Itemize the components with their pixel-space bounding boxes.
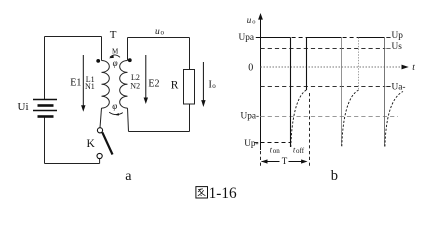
svg-text:T: T: [110, 29, 117, 41]
polarity dot primary: [96, 59, 100, 63]
wire: switch to bottom wire: [99, 159, 101, 164]
Up level dashed gap 1: [292, 37, 307, 39]
svg-text:o: o: [252, 19, 255, 26]
pulse top solid 1: [261, 37, 291, 39]
resistor R: [184, 70, 195, 105]
svg-text:u: u: [155, 27, 160, 37]
pulse rise 3 grey: [358, 38, 360, 90]
svg-text:o: o: [161, 29, 165, 37]
Up tick right: [386, 37, 390, 39]
pulse drop 3 grey: [384, 38, 386, 147]
battery Ui plate short thick 2: [38, 115, 54, 118]
wire: R top: [189, 38, 191, 71]
svg-text:Up-: Up-: [244, 139, 258, 149]
polarity dot secondary: [128, 58, 132, 62]
arrow E2: [145, 55, 147, 98]
svg-text:M: M: [112, 48, 119, 56]
period T arrow: [262, 161, 307, 163]
Up- tick left: [254, 142, 258, 144]
wire: top-left loop top: [45, 36, 102, 38]
wire: left branch upper: [44, 37, 46, 100]
Ua- level dashed: [261, 86, 386, 88]
recovery curve 2: [342, 90, 359, 146]
wire: secondary loop top: [128, 37, 190, 39]
svg-text:K: K: [87, 138, 96, 150]
transformer T primary winding L1/N1: [102, 61, 110, 109]
svg-text:φ: φ: [113, 58, 118, 68]
wire: secondary bottom riser: [128, 108, 129, 131]
svg-text:Up: Up: [392, 31, 404, 41]
wire: bottom-left loop: [45, 163, 100, 165]
battery Ui plate short thick 1: [38, 104, 54, 107]
pulse drop 1: [290, 38, 292, 148]
svg-text:Upa-: Upa-: [241, 111, 260, 121]
Up- level dashed: [261, 142, 291, 144]
period boundary dashed: [309, 93, 311, 167]
Ua- tick right: [386, 86, 390, 88]
battery Ui plate long 2: [33, 110, 57, 112]
Upa- level dashed grey: [261, 116, 399, 118]
recovery curve 1: [291, 90, 307, 147]
switch K top contact: [97, 128, 102, 133]
tick Upa: [256, 37, 261, 39]
wire: secondary top riser: [127, 38, 129, 61]
svg-text:Us: Us: [392, 42, 403, 52]
svg-text:o: o: [212, 82, 216, 90]
flux arrow bottom arc: [109, 112, 123, 114]
svg-text:u: u: [247, 15, 252, 25]
caption hanzi tu glyph: [196, 187, 208, 198]
Us level dashed: [261, 48, 386, 50]
recovery curve 3: [385, 92, 403, 147]
battery Ui plate long 1: [33, 99, 57, 101]
Us tick right: [386, 48, 390, 50]
switch K bottom contact: [97, 153, 102, 158]
svg-text:N1: N1: [85, 82, 95, 91]
svg-text:R: R: [171, 80, 179, 92]
transformer T secondary winding L2/N2: [120, 61, 128, 109]
svg-text:t: t: [412, 63, 415, 73]
svg-text:on: on: [273, 147, 281, 155]
wire: primary bottom to switch: [100, 108, 102, 128]
svg-text:E1: E1: [70, 78, 81, 89]
svg-text:0: 0: [248, 62, 253, 73]
svg-text:Ui: Ui: [18, 101, 29, 113]
pulse rise 2: [306, 38, 308, 91]
switch K blade: [102, 132, 112, 154]
Up level dashed gap 2: [343, 37, 359, 39]
svg-text:a: a: [125, 169, 132, 184]
flux arrow top arc: [110, 55, 120, 57]
pulse top solid 3: [359, 37, 385, 39]
svg-text:N2: N2: [130, 81, 140, 90]
t axis arrowhead: [402, 65, 409, 70]
svg-text:E2: E2: [148, 78, 159, 89]
arrow Io: [202, 62, 204, 101]
svg-text:b: b: [331, 168, 338, 184]
arrow E1: [82, 55, 84, 106]
t axis dotted: [261, 66, 404, 68]
wire: secondary loop bottom: [129, 131, 190, 133]
wire: primary top riser: [101, 37, 103, 61]
svg-text:1-16: 1-16: [209, 185, 237, 202]
svg-text:φ: φ: [112, 101, 117, 111]
svg-text:T: T: [282, 156, 288, 166]
wire: R bottom: [189, 104, 191, 132]
y axis: [260, 15, 262, 150]
svg-text:off: off: [296, 147, 305, 155]
y axis dashed extension: [260, 151, 262, 167]
pulse drop 2 grey: [341, 38, 343, 147]
svg-text:Ua-: Ua-: [392, 83, 406, 93]
pulse top solid 2: [307, 37, 342, 39]
wire: left branch lower: [44, 117, 46, 164]
svg-text:Upa: Upa: [239, 33, 255, 43]
